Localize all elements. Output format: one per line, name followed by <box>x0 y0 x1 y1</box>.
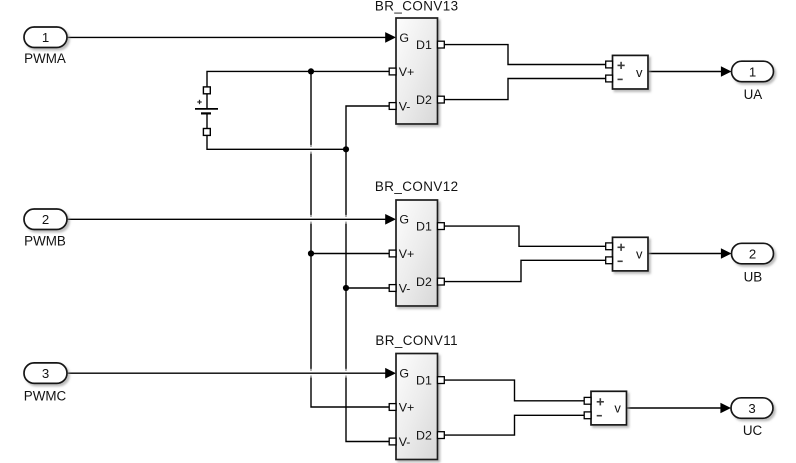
pin D1 (U1) <box>416 38 432 52</box>
battery terminal - <box>203 129 210 136</box>
svg-text:V+: V+ <box>399 400 415 414</box>
wire crossover gaps <box>311 145 346 378</box>
label PWMC <box>24 388 67 403</box>
wire: PWMA to U1.G <box>67 32 396 43</box>
svg-text:V-: V- <box>399 99 411 113</box>
svg-text:G: G <box>399 213 409 227</box>
bus V- vertical wire (node V-) <box>346 106 390 442</box>
battery terminal + <box>203 87 210 94</box>
svg-text:BR_CONV12: BR_CONV12 <box>375 179 459 194</box>
wire: U2.D1 to VM2.+ <box>444 226 606 246</box>
svg-text:3: 3 <box>42 366 49 381</box>
pin G (U1) <box>399 31 409 45</box>
wire: battery + to U1.V+ <box>207 71 390 87</box>
pin V+ (U1) <box>399 65 415 79</box>
svg-text:UC: UC <box>743 423 763 438</box>
pin D1 (U3) <box>416 374 432 388</box>
pin G (U3) <box>399 367 409 381</box>
pin D2 (U1) <box>416 93 432 107</box>
svg-text:2: 2 <box>749 246 756 261</box>
svg-text:v: v <box>614 401 621 416</box>
converter U3 BR_CONV11 <box>396 354 438 460</box>
pin D2 (U3) <box>416 429 432 443</box>
port square VM1.- <box>606 75 613 82</box>
svg-text:PWMC: PWMC <box>24 388 67 403</box>
svg-text:3: 3 <box>748 401 755 416</box>
svg-text:D1: D1 <box>416 374 432 388</box>
wire: PWMC to U3.G <box>67 368 396 379</box>
wire: U3.D1 to VM3.+ <box>444 380 584 401</box>
svg-text:G: G <box>399 31 409 45</box>
voltage measurement VM3 <box>591 391 627 425</box>
wire: VM3 to UC outport <box>627 403 732 414</box>
label UA <box>744 87 763 102</box>
outport 2 <box>732 243 774 263</box>
svg-text:PWMB: PWMB <box>24 234 66 249</box>
label UB <box>744 270 763 285</box>
bus V+ vertical wire (node V+) <box>311 71 390 407</box>
port square U1.D1 <box>438 41 445 48</box>
pin G (U2) <box>399 213 409 227</box>
label BR_CONV11 <box>375 333 458 348</box>
pin V+ (U2) <box>399 247 415 261</box>
svg-text:BR_CONV13: BR_CONV13 <box>375 0 459 13</box>
converter U2 BR_CONV12 <box>396 200 438 306</box>
svg-text:PWMA: PWMA <box>24 51 66 66</box>
svg-text:D2: D2 <box>416 429 432 443</box>
svg-text:V-: V- <box>399 281 411 295</box>
svg-text:D2: D2 <box>416 275 432 289</box>
wire: U3.D2 to VM3.- <box>444 415 584 435</box>
port square U2.D1 <box>438 223 445 230</box>
wire: V- bus to U2.V- <box>346 287 390 289</box>
battery E1 (DC voltage source) <box>195 94 218 129</box>
svg-text:D1: D1 <box>416 220 432 234</box>
wire: U2.D2 to VM2.- <box>444 260 606 281</box>
port square U2.D2 <box>438 278 445 285</box>
svg-text:D1: D1 <box>416 38 432 52</box>
pin D2 (U2) <box>416 275 432 289</box>
port square U3.D1 <box>438 377 445 384</box>
port square VM3.+ <box>584 397 591 404</box>
wire: battery - to V- bus <box>207 135 346 149</box>
inport 1 <box>24 27 67 48</box>
wire: VM1 to UA outport <box>648 66 732 77</box>
svg-text:V-: V- <box>399 435 411 449</box>
svg-text:1: 1 <box>42 30 49 45</box>
label UC <box>743 423 763 438</box>
voltage measurement VM1 <box>613 55 649 89</box>
port square U2.V+ <box>389 250 396 257</box>
inport 2 <box>24 209 67 230</box>
pin V- (U1) <box>399 99 411 113</box>
pin V+ (U3) <box>399 400 415 414</box>
inport 3 <box>24 363 67 384</box>
junction: V- bus / U2.V- <box>343 285 349 291</box>
voltage measurement VM2 <box>613 237 649 271</box>
port square U2.V- <box>389 285 396 292</box>
port square U3.V- <box>389 438 396 445</box>
converter U1 BR_CONV13 <box>396 18 438 124</box>
pin D1 (U2) <box>416 220 432 234</box>
svg-text:D2: D2 <box>416 93 432 107</box>
outport 1 <box>732 61 774 81</box>
wire: VM2 to UB outport <box>648 248 732 259</box>
port square U1.D2 <box>438 96 445 103</box>
svg-text:v: v <box>636 65 643 80</box>
junction: V+ bus / U2.V+ <box>308 250 314 256</box>
svg-text:BR_CONV11: BR_CONV11 <box>375 333 458 348</box>
outport 3 <box>731 398 773 419</box>
svg-text:G: G <box>399 367 409 381</box>
junction: battery- / V- bus <box>343 146 349 152</box>
port square U1.V- <box>389 103 396 110</box>
wire: U1.D1 to VM1.+ <box>444 45 606 65</box>
svg-text:V+: V+ <box>399 247 415 261</box>
port square U3.V+ <box>389 404 396 411</box>
port square VM3.- <box>584 412 591 419</box>
wire: U1.D2 to VM1.- <box>444 79 606 100</box>
svg-text:UA: UA <box>744 87 763 102</box>
pin V- (U3) <box>399 435 411 449</box>
junction: battery+ / V+ bus <box>308 68 314 74</box>
wire: PWMB to U2.G <box>67 214 396 225</box>
port square VM1.+ <box>606 61 613 68</box>
svg-text:v: v <box>636 247 643 262</box>
port square U1.V+ <box>389 68 396 75</box>
wire: V+ bus to U2.V+ <box>311 253 390 255</box>
svg-text:2: 2 <box>42 212 49 227</box>
port square VM2.+ <box>606 243 613 250</box>
svg-text:UB: UB <box>744 270 763 285</box>
svg-text:1: 1 <box>749 64 756 79</box>
port square VM2.- <box>606 257 613 264</box>
label PWMA <box>24 51 66 66</box>
svg-text:V+: V+ <box>399 65 415 79</box>
port square U3.D2 <box>438 432 445 439</box>
label PWMB <box>24 234 66 249</box>
label BR_CONV12 <box>375 179 459 194</box>
pin V- (U2) <box>399 281 411 295</box>
label BR_CONV13 <box>375 0 459 13</box>
